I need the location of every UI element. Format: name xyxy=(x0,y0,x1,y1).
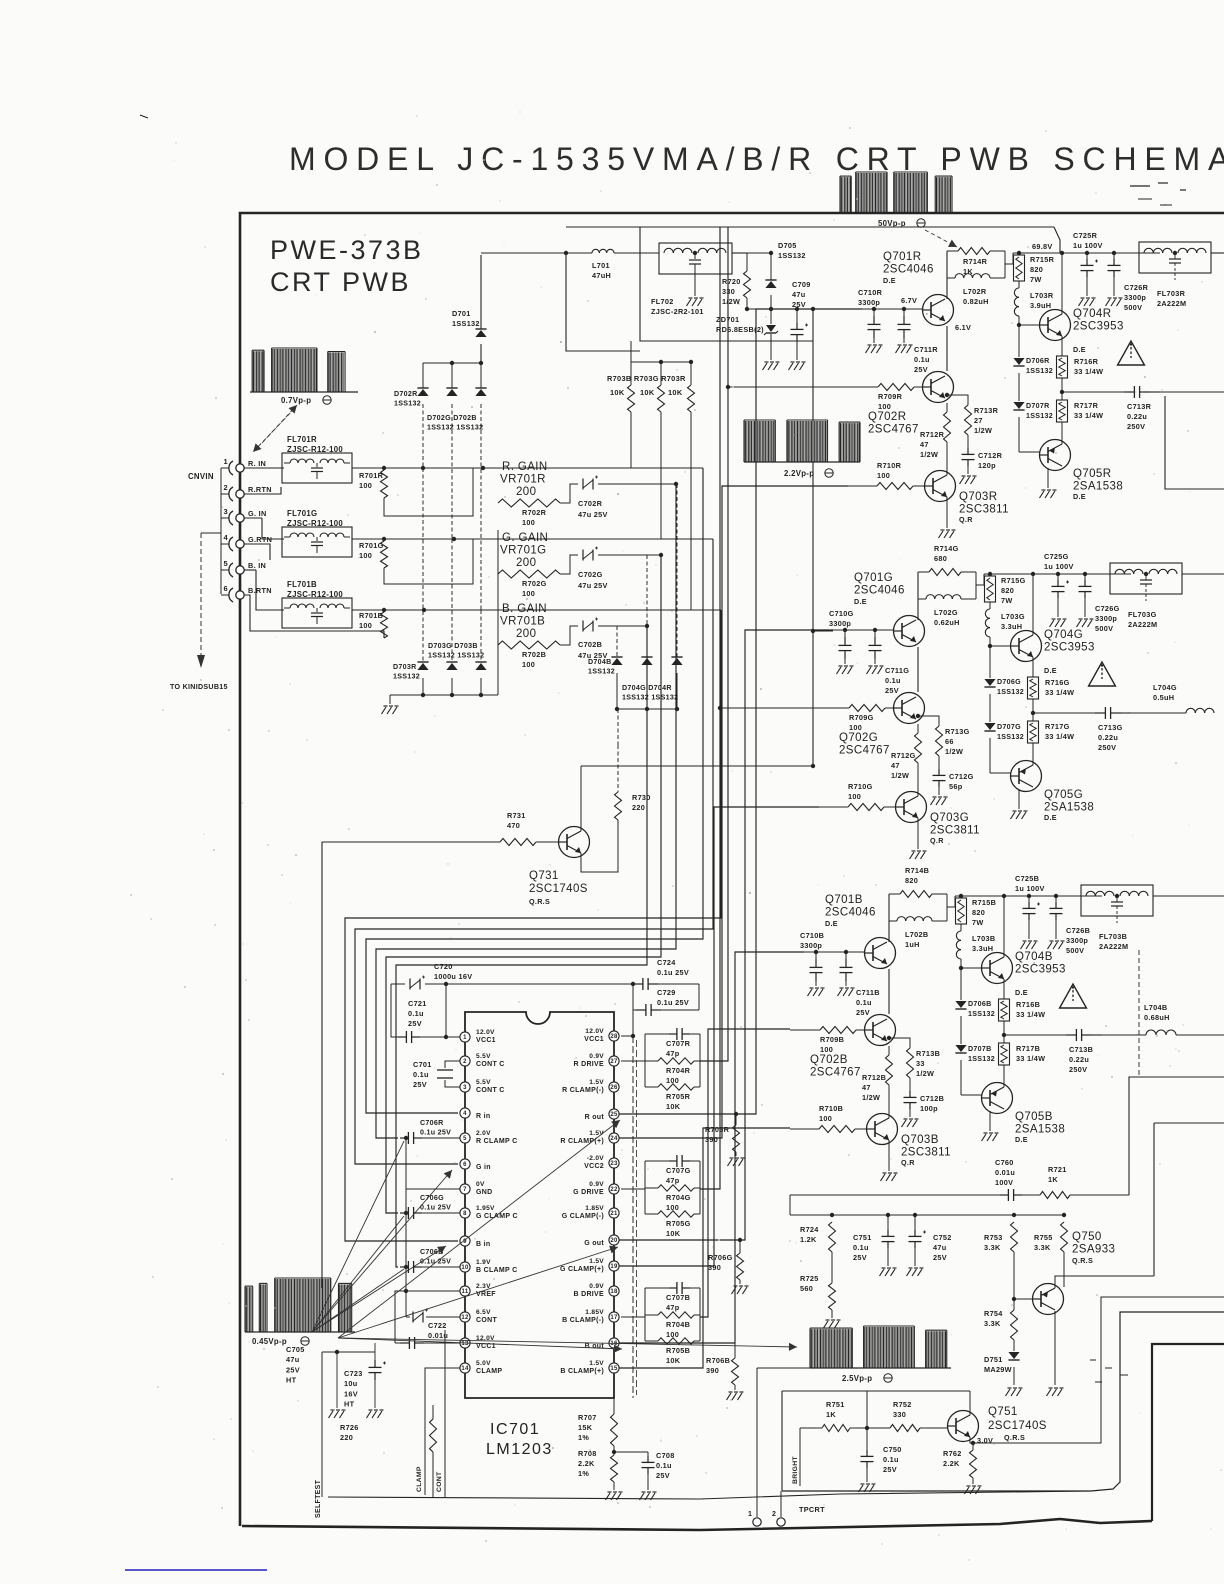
svg-text:R731: R731 xyxy=(507,811,526,820)
svg-text:Q701G: Q701G xyxy=(854,572,893,584)
resistor R714G 680 xyxy=(917,572,919,620)
svg-text:R701B: R701B xyxy=(359,611,383,620)
ground C725G xyxy=(1050,620,1055,627)
svg-text:C713B: C713B xyxy=(1069,1045,1093,1054)
IC pin 5 R CLAMP C xyxy=(460,1133,470,1143)
svg-text:R702B: R702B xyxy=(522,650,546,659)
svg-text:47: 47 xyxy=(920,440,929,449)
svg-text:47p: 47p xyxy=(666,1049,680,1058)
waveform 0.45Vp-p xyxy=(245,1331,355,1333)
resistor R753 3.3K xyxy=(1011,1222,1018,1252)
inductor L702G 0.62uH xyxy=(918,598,926,600)
ground C725B xyxy=(1021,942,1026,949)
svg-text:10K: 10K xyxy=(610,388,625,397)
svg-text:15K: 15K xyxy=(578,1423,593,1432)
svg-text:FL703R: FL703R xyxy=(1157,289,1186,298)
svg-text:7W: 7W xyxy=(1001,596,1013,605)
svg-text:13: 13 xyxy=(461,1341,469,1347)
svg-text:PWE-373B: PWE-373B xyxy=(270,235,424,265)
svg-text:R730: R730 xyxy=(632,793,651,802)
inductor L701 47uH xyxy=(481,252,592,254)
transistor Q731 2SC1740S xyxy=(559,827,590,858)
svg-text:2: 2 xyxy=(224,483,228,492)
svg-text:FL701B: FL701B xyxy=(287,580,317,589)
svg-text:C752: C752 xyxy=(933,1233,952,1242)
wire pin1 to waveform xyxy=(757,1367,810,1369)
diode D702G 1SS132 xyxy=(446,389,457,396)
svg-text:D.E: D.E xyxy=(1044,813,1057,822)
svg-text:-2.0V: -2.0V xyxy=(587,1155,605,1162)
svg-text:0.68uH: 0.68uH xyxy=(1144,1013,1170,1022)
svg-text:6: 6 xyxy=(224,584,228,593)
ground C712B xyxy=(902,1120,907,1127)
capacitor C712G 56p xyxy=(938,769,940,775)
svg-text:C709: C709 xyxy=(792,280,811,289)
IC pin 11 VREF xyxy=(460,1286,470,1296)
diode D706R 1SS132 xyxy=(1018,325,1020,357)
svg-text:3300p: 3300p xyxy=(829,619,851,628)
svg-text:330: 330 xyxy=(893,1410,906,1419)
svg-text:19: 19 xyxy=(610,1264,618,1270)
svg-text:5.0V: 5.0V xyxy=(476,1360,491,1367)
svg-text:470: 470 xyxy=(507,821,520,830)
svg-text:12.0V: 12.0V xyxy=(585,1028,604,1035)
wire B drive to network xyxy=(621,1316,645,1318)
svg-text:100V: 100V xyxy=(995,1178,1013,1187)
capacitor C702G 47u 25V xyxy=(560,555,578,574)
svg-text:14: 14 xyxy=(461,1366,469,1372)
svg-text:R CLAMP(+): R CLAMP(+) xyxy=(560,1138,604,1145)
svg-text:C726R: C726R xyxy=(1124,283,1149,292)
resistor R752 330 xyxy=(890,1425,920,1432)
svg-text:G CLAMP C: G CLAMP C xyxy=(476,1213,518,1220)
wire Q751 emitter node xyxy=(970,1297,1224,1443)
svg-text:FL701G: FL701G xyxy=(287,509,317,518)
wire bus R-clamp path xyxy=(376,484,676,1138)
svg-text:Q705R: Q705R xyxy=(1073,468,1111,480)
svg-text:R710B: R710B xyxy=(819,1104,843,1113)
svg-text:220: 220 xyxy=(632,803,645,812)
wire CLAMP pin14 down xyxy=(425,1368,460,1495)
resistor R710G 100 xyxy=(819,806,848,808)
resistor R704G 100 xyxy=(645,1187,658,1189)
svg-text:R755: R755 xyxy=(1034,1233,1053,1242)
wire R.RTN return xyxy=(244,487,281,494)
waveform 0.7Vp-p xyxy=(250,391,358,393)
svg-text:10K: 10K xyxy=(666,1102,681,1111)
ground R706B xyxy=(727,1393,732,1400)
svg-text:Q705B: Q705B xyxy=(1015,1111,1053,1123)
wire bus B-drive path xyxy=(700,1029,790,1317)
resistor R712G 47 1/2W xyxy=(917,724,919,733)
svg-text:0.1u: 0.1u xyxy=(408,1009,424,1018)
svg-text:56p: 56p xyxy=(949,782,963,791)
wire G.IN to FL701G xyxy=(244,517,262,519)
svg-text:1SS132: 1SS132 xyxy=(394,400,421,408)
svg-text:CRT PWB: CRT PWB xyxy=(270,267,411,297)
svg-text:1SS132: 1SS132 xyxy=(393,673,420,681)
svg-text:R717G: R717G xyxy=(1045,722,1070,731)
svg-text:VR701G: VR701G xyxy=(500,545,547,557)
svg-text:47uH: 47uH xyxy=(592,271,611,280)
svg-text:R713B: R713B xyxy=(916,1049,940,1058)
svg-text:28: 28 xyxy=(610,1034,618,1040)
svg-text:G DRIVE: G DRIVE xyxy=(573,1189,604,1196)
svg-text:C721: C721 xyxy=(408,999,427,1008)
svg-text:D706B: D706B xyxy=(968,1000,992,1008)
svg-text:D.E: D.E xyxy=(854,597,867,606)
IC pin 28 VCC1 xyxy=(609,1031,619,1041)
ground Q705B xyxy=(989,1111,991,1131)
svg-text:25V: 25V xyxy=(933,1253,947,1262)
svg-text:2SC4046: 2SC4046 xyxy=(883,264,934,276)
wire FL701R to R.GAIN xyxy=(352,467,703,469)
wire C713R output to right xyxy=(1160,391,1224,393)
capacitor C713R 0.22u 250V xyxy=(1062,391,1124,393)
svg-text:L703R: L703R xyxy=(1030,291,1054,300)
svg-text:1.2K: 1.2K xyxy=(800,1235,817,1244)
IC pin 15 B CLAMP(+) xyxy=(609,1363,619,1373)
filter FL702 ZJSC-2R2-101 xyxy=(659,243,732,274)
ground C711R xyxy=(896,346,901,353)
svg-text:47p: 47p xyxy=(666,1303,680,1312)
svg-text:0.1u: 0.1u xyxy=(656,1461,672,1470)
diode D704G 1SS132 xyxy=(646,555,648,657)
capacitor C710R 3300p xyxy=(873,309,875,316)
svg-text:CLAMP: CLAMP xyxy=(416,1466,423,1492)
scan marks bottom right xyxy=(1090,1359,1096,1361)
resistor R717G 33 1/4W xyxy=(1032,699,1034,721)
wire R701G bottom rail xyxy=(384,539,473,584)
svg-text:100: 100 xyxy=(359,621,372,630)
svg-text:250V: 250V xyxy=(1069,1065,1087,1074)
svg-text:R out: R out xyxy=(585,1114,605,1121)
svg-text:10K: 10K xyxy=(666,1356,681,1365)
transistor Q750 2SA933 xyxy=(1033,1284,1064,1315)
svg-text:LM1203: LM1203 xyxy=(486,1441,553,1458)
annotation arrow 50Vp-p to R714R xyxy=(925,230,957,247)
svg-text:1: 1 xyxy=(748,1511,752,1518)
connector bracket xyxy=(220,468,222,594)
ground C710G xyxy=(837,667,842,674)
ground C723 xyxy=(367,1411,372,1418)
connector pin 1 R. IN xyxy=(229,461,233,475)
svg-text:C724: C724 xyxy=(657,958,676,967)
capacitor C707R 47p xyxy=(645,1033,669,1035)
svg-text:C711R: C711R xyxy=(914,345,938,354)
resistor R726 220 xyxy=(430,1419,437,1452)
capacitor C702R 47u 25V xyxy=(560,484,578,503)
IC pin 1 VCC1 xyxy=(460,1032,470,1042)
svg-text:47u: 47u xyxy=(933,1243,946,1252)
resistor R708 2.2K 1% xyxy=(613,1446,615,1455)
diode D707B 1SS132 xyxy=(960,1016,962,1044)
svg-text:33 1/4W: 33 1/4W xyxy=(1045,688,1074,697)
connector pin 2 TPCRT xyxy=(780,1491,782,1517)
capacitor C702B 47u 25V xyxy=(560,626,578,645)
svg-text:Q704R: Q704R xyxy=(1073,308,1111,320)
wire rail to right edge R channel xyxy=(1211,252,1224,254)
svg-text:Q.R: Q.R xyxy=(930,836,944,845)
resistor R712B 47 1/2W xyxy=(888,1046,890,1055)
transistor Q701G 2SC4046 xyxy=(894,616,925,647)
svg-text:2.2K: 2.2K xyxy=(578,1459,595,1468)
svg-text:2SC3953: 2SC3953 xyxy=(1073,321,1124,333)
svg-text:2.2K: 2.2K xyxy=(943,1459,960,1468)
ground C708 xyxy=(640,1493,645,1500)
svg-text:200: 200 xyxy=(516,486,536,498)
svg-text:R710G: R710G xyxy=(848,782,873,791)
capacitor C726G 3300p 500V xyxy=(1084,574,1086,580)
svg-text:Q704B: Q704B xyxy=(1015,951,1053,963)
svg-text:1/2W: 1/2W xyxy=(920,450,938,459)
diode D706G 1SS132 xyxy=(989,646,991,678)
resistor R717R 33 1/4W xyxy=(1061,378,1063,400)
resistor R715B 820 7W xyxy=(960,896,962,898)
svg-text:ZJSC-R12-100: ZJSC-R12-100 xyxy=(287,519,343,528)
wire Q750 emitter to output xyxy=(1055,1276,1154,1288)
svg-text:VR701R: VR701R xyxy=(500,474,546,486)
transistor Q703R 2SC3811 xyxy=(925,471,956,502)
svg-text:R701R: R701R xyxy=(359,471,384,480)
resistor R725 560 xyxy=(831,1252,833,1283)
svg-text:3.3uH: 3.3uH xyxy=(1001,622,1022,631)
capacitor C711G 0.1u 25V xyxy=(874,630,876,637)
ground Q703R emitter xyxy=(946,497,948,528)
svg-text:R714R: R714R xyxy=(963,257,988,266)
IC pin 10 B CLAMP C xyxy=(460,1262,470,1272)
connector pin 5 B. IN xyxy=(229,563,233,577)
wire Q750 collector xyxy=(1054,1311,1056,1385)
svg-text:6.7V: 6.7V xyxy=(901,296,917,305)
svg-text:3300p: 3300p xyxy=(1095,614,1117,623)
capacitor C710B 3300p xyxy=(815,952,817,959)
ground C751 xyxy=(880,1269,885,1276)
annotation arrow waveform to R.IN xyxy=(253,408,295,452)
svg-text:R707: R707 xyxy=(578,1413,597,1422)
svg-text:IC701: IC701 xyxy=(490,1421,540,1438)
svg-text:390: 390 xyxy=(705,1135,718,1144)
svg-text:VCC1: VCC1 xyxy=(584,1036,604,1043)
svg-text:1: 1 xyxy=(463,1035,467,1041)
wire supply node 9V xyxy=(747,308,813,310)
capacitor C712B 100p xyxy=(909,1091,911,1097)
svg-text:R721: R721 xyxy=(1048,1165,1067,1174)
svg-text:R706R: R706R xyxy=(705,1125,730,1134)
svg-text:VCC1: VCC1 xyxy=(476,1037,496,1044)
resistor R701G 100 xyxy=(381,541,388,568)
capacitor C726R 3300p 500V xyxy=(1113,253,1115,259)
wire bus G-clamp path xyxy=(386,555,661,1213)
svg-text:Q.R.S: Q.R.S xyxy=(1072,1256,1093,1265)
transistor Q704R 2SC3953 xyxy=(1019,324,1040,326)
wire bus R-drive path xyxy=(700,227,728,1061)
IC pin 25 R out xyxy=(609,1109,619,1119)
svg-text:2SC3953: 2SC3953 xyxy=(1015,964,1066,976)
resistor R709R 100 xyxy=(848,386,878,388)
svg-text:1.5V: 1.5V xyxy=(589,1360,604,1367)
schematic border xyxy=(240,213,1224,1526)
svg-text:250V: 250V xyxy=(1127,422,1145,431)
wire R701R bottom rail xyxy=(384,468,473,516)
svg-text:33 1/4W: 33 1/4W xyxy=(1074,367,1103,376)
svg-text:2SC3811: 2SC3811 xyxy=(930,825,980,837)
wire bus G-out path xyxy=(618,630,833,1240)
svg-text:1SS132: 1SS132 xyxy=(452,319,480,328)
wire B.RTN return xyxy=(244,595,384,638)
transistor Q705R 2SA1538 xyxy=(1019,451,1040,453)
svg-text:47: 47 xyxy=(862,1083,871,1092)
svg-text:0.1u 25V: 0.1u 25V xyxy=(657,968,689,977)
svg-text:C725G: C725G xyxy=(1044,552,1069,561)
wire VCC rail right of IC xyxy=(632,984,634,1036)
ground Q703G emitter xyxy=(917,818,919,849)
svg-text:R709B: R709B xyxy=(820,1035,844,1044)
svg-text:2: 2 xyxy=(463,1059,467,1065)
svg-text:0.7Vp-p: 0.7Vp-p xyxy=(281,396,311,405)
svg-text:2.2Vp-p: 2.2Vp-p xyxy=(784,469,814,478)
resistor R754 3.3K xyxy=(1011,1310,1018,1340)
svg-text:R712G: R712G xyxy=(891,751,916,760)
svg-text:R717B: R717B xyxy=(1016,1044,1040,1053)
svg-text:R709G: R709G xyxy=(849,713,874,722)
wire Q704B collector to rail xyxy=(1003,896,1005,957)
wire bus R-clamp+ path xyxy=(618,486,848,1138)
svg-text:R713R: R713R xyxy=(974,406,999,415)
resistor R713B 33 1/2W xyxy=(889,1038,910,1048)
svg-text:R705G: R705G xyxy=(666,1219,691,1228)
resistor R751 1K xyxy=(800,1427,822,1429)
svg-text:100: 100 xyxy=(878,402,891,411)
wire D704 bottom bus xyxy=(617,708,677,710)
resistor R724 1.2K xyxy=(829,1222,836,1252)
wire R drive to network xyxy=(621,1060,645,1062)
svg-text:3: 3 xyxy=(463,1085,467,1091)
waveform 2.2Vp-p xyxy=(744,461,860,463)
svg-text:25V: 25V xyxy=(883,1465,897,1474)
wire supply rail B xyxy=(955,895,1102,897)
svg-text:820: 820 xyxy=(1001,586,1014,595)
svg-text:0.45Vp-p: 0.45Vp-p xyxy=(252,1337,287,1346)
annotation arrows to out pins xyxy=(338,1120,620,1338)
diode D703R 1SS132 xyxy=(422,468,424,662)
svg-text:R720: R720 xyxy=(722,277,741,286)
svg-text:C713G: C713G xyxy=(1098,723,1123,732)
svg-text:0.1u: 0.1u xyxy=(885,676,901,685)
svg-text:R724: R724 xyxy=(800,1225,819,1234)
svg-text:3300p: 3300p xyxy=(800,941,822,950)
resistor R705R 10K xyxy=(645,1086,658,1088)
svg-text:R712R: R712R xyxy=(920,430,945,439)
svg-text:25V: 25V xyxy=(856,1008,870,1017)
svg-text:50Vp-p: 50Vp-p xyxy=(878,219,906,228)
svg-text:0.1u 25V: 0.1u 25V xyxy=(420,1129,451,1137)
svg-text:3.3uH: 3.3uH xyxy=(972,944,993,953)
svg-text:1%: 1% xyxy=(578,1433,589,1442)
svg-text:25V: 25V xyxy=(413,1080,427,1089)
svg-text:33: 33 xyxy=(916,1059,925,1068)
svg-text:0V: 0V xyxy=(476,1181,485,1188)
svg-text:2A222M: 2A222M xyxy=(1099,942,1128,951)
svg-text:G CLAMP(-): G CLAMP(-) xyxy=(562,1213,604,1220)
svg-text:R716G: R716G xyxy=(1045,678,1070,687)
inductor L702R 0.82uH xyxy=(947,277,955,279)
svg-text:6.5V: 6.5V xyxy=(476,1309,491,1316)
svg-text:C723: C723 xyxy=(344,1369,363,1378)
svg-text:680: 680 xyxy=(934,554,947,563)
svg-text:3: 3 xyxy=(224,507,228,516)
svg-text:2SC3953: 2SC3953 xyxy=(1044,642,1095,654)
svg-text:100: 100 xyxy=(522,518,535,527)
svg-text:C726G: C726G xyxy=(1095,604,1120,613)
svg-text:560: 560 xyxy=(800,1284,813,1293)
ground ZD701 xyxy=(763,363,768,370)
svg-text:C725B: C725B xyxy=(1015,874,1039,883)
resistor R713R 27 1/2W xyxy=(947,395,968,405)
svg-text:2A222M: 2A222M xyxy=(1157,299,1186,308)
wire bus G-in path xyxy=(355,539,713,1164)
IC pin 18 B DRIVE xyxy=(609,1286,619,1296)
svg-text:1SS132: 1SS132 xyxy=(588,668,615,676)
transistor Q704B 2SC3953 xyxy=(961,967,982,969)
svg-text:0.9V: 0.9V xyxy=(589,1181,604,1188)
inductor L704B 0.68uH xyxy=(1102,1034,1146,1036)
svg-text:R716B: R716B xyxy=(1016,1000,1040,1009)
svg-text:C712B: C712B xyxy=(920,1094,944,1103)
ground C712G xyxy=(931,798,936,805)
wire G channel input node xyxy=(833,629,893,631)
resistor R704B 100 xyxy=(645,1314,658,1316)
svg-text:27: 27 xyxy=(974,416,983,425)
svg-text:10K: 10K xyxy=(666,1229,681,1238)
wire C713G output to right xyxy=(1131,712,1186,714)
inductor L703B 3.3uH xyxy=(960,924,962,931)
svg-text:L702G: L702G xyxy=(934,608,958,617)
partial box right edge R channel xyxy=(1165,396,1224,489)
ground R706R xyxy=(728,1159,733,1166)
svg-text:MA29W: MA29W xyxy=(984,1365,1012,1374)
wire bus R-in path xyxy=(366,468,703,1113)
svg-text:B. GAIN: B. GAIN xyxy=(502,603,547,615)
IC pin 9 B in xyxy=(460,1236,470,1246)
svg-text:R715R: R715R xyxy=(1030,255,1055,264)
svg-text:15: 15 xyxy=(610,1366,618,1372)
svg-text:C706G: C706G xyxy=(420,1194,444,1202)
svg-text:0.5uH: 0.5uH xyxy=(1153,693,1174,702)
IC IC701 LM1203 outline xyxy=(465,1012,614,1398)
svg-text:Q702B: Q702B xyxy=(810,1054,848,1066)
svg-text:R. IN: R. IN xyxy=(248,459,266,468)
svg-text:3.0V: 3.0V xyxy=(977,1436,993,1445)
svg-text:FL703G: FL703G xyxy=(1128,610,1157,619)
svg-text:CONT C: CONT C xyxy=(476,1087,505,1094)
wire R.IN to FL701R xyxy=(244,467,284,469)
svg-text:G out: G out xyxy=(584,1240,604,1247)
svg-text:SELFTEST: SELFTEST xyxy=(315,1479,322,1518)
svg-text:Q750: Q750 xyxy=(1072,1231,1102,1243)
svg-text:0.9V: 0.9V xyxy=(589,1053,604,1060)
capacitor C701 0.1u 25V xyxy=(445,1061,460,1068)
wire R755 down xyxy=(1063,1252,1065,1287)
svg-text:D.E: D.E xyxy=(883,276,896,285)
resistor R709G 100 xyxy=(819,707,849,709)
resistor R716B 33 1/4W xyxy=(1003,979,1005,999)
svg-text:B out: B out xyxy=(585,1343,605,1350)
svg-text:L704G: L704G xyxy=(1153,683,1177,692)
wire 50V rail from top xyxy=(566,254,640,351)
svg-text:2SC4046: 2SC4046 xyxy=(825,907,876,919)
svg-text:CNVIN: CNVIN xyxy=(188,472,214,481)
